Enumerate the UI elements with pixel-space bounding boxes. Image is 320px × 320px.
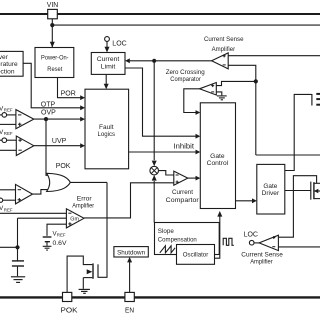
svg-text:Driver: Driver <box>262 190 280 197</box>
wire POK comparator top input <box>0 189 16 191</box>
wire OVP reference input <box>7 114 16 116</box>
wire SS pin line <box>0 246 18 248</box>
pin VIN <box>47 2 59 19</box>
svg-text:EN: EN <box>125 306 134 315</box>
svg-text:Gm: Gm <box>70 217 79 223</box>
arrow UVP into Fault Logics <box>80 143 85 148</box>
wire zero crossing plus input <box>216 81 256 85</box>
svg-text:Error: Error <box>77 195 93 202</box>
svg-text:Logics: Logics <box>98 131 116 138</box>
wire LOC output <box>254 242 259 244</box>
arrow PWM into Gate Control <box>196 176 201 181</box>
svg-text:VIN: VIN <box>47 2 59 9</box>
block U_CL Current Limit <box>91 53 125 75</box>
op-amp U_CS2 current sense amplifier bottom <box>259 235 278 250</box>
node LOC bottom terminal <box>249 240 254 245</box>
arrow LOC into Current Limit <box>105 47 110 53</box>
arrow EN into Shutdown <box>127 257 132 262</box>
block U_FL Fault Logics <box>85 89 129 169</box>
transistor Q_HS high side MOSFET (cut at right edge) <box>312 94 320 106</box>
comparator U_ZC zero crossing <box>200 83 217 96</box>
svg-text:Current: Current <box>172 189 193 196</box>
svg-text:Temperature: Temperature <box>0 61 18 68</box>
wire Gate Control to Gate Driver <box>236 200 253 202</box>
svg-text:OVP: OVP <box>41 109 56 116</box>
block U_SC Slope Compensation <box>155 223 220 255</box>
wire Q_POK source to ground <box>82 278 84 289</box>
arrow into Gate Driver <box>252 198 257 203</box>
ground below Q_POK <box>79 289 90 293</box>
wire low side drain sense <box>278 176 316 238</box>
wire POK pin to MOSFET drain <box>67 256 92 292</box>
waveform sawtooth slope icon <box>160 246 175 253</box>
wire VIN branch rail <box>52 24 320 26</box>
svg-text:Amplifier: Amplifier <box>212 46 236 53</box>
label Current Sense Amplifier top <box>204 36 244 53</box>
wire current sense bottom minus input <box>278 246 320 248</box>
arrow current sense into Current Limit <box>125 58 130 63</box>
node SS junction <box>15 245 19 249</box>
svg-text:Amplifier: Amplifier <box>250 258 273 265</box>
wire current comparator output <box>188 177 196 179</box>
wire OTP box to OTP line <box>23 63 81 108</box>
arrow clock into Gate Control <box>217 211 222 217</box>
svg-text:Compensation: Compensation <box>158 236 197 243</box>
label Current Sense Amplifier bottom <box>241 251 283 265</box>
gate OR POK <box>47 173 71 191</box>
wire SS riser <box>17 218 19 247</box>
svg-text:REF: REF <box>4 131 13 136</box>
node LOC top terminal <box>105 37 110 42</box>
wire VREF input to error amplifier <box>47 224 67 236</box>
op-amp U_CS1 current sense amplifier top <box>212 53 229 69</box>
wire VIN pin to POR <box>51 19 53 47</box>
wire bottom GND rail <box>0 296 320 298</box>
svg-text:REF: REF <box>57 233 66 238</box>
svg-text:Inhibit: Inhibit <box>174 144 195 151</box>
ground below C_SS <box>11 277 25 283</box>
wire current sense minus input <box>228 65 256 81</box>
label Zero Crossing Comparator <box>166 69 205 83</box>
block U_OTP Over Temperature Protection (cut at left edge) <box>0 51 23 76</box>
arrow zero crossing into Gate Control <box>196 110 201 115</box>
wire current sense to Current Limit <box>130 60 212 62</box>
wire slope compensation to summing node <box>153 181 155 223</box>
wire VIN top rail <box>0 13 320 15</box>
wire POK gate riser <box>98 182 107 277</box>
svg-text:Limit: Limit <box>101 63 116 70</box>
ground at zero crossing comparator <box>217 96 227 100</box>
svg-text:Current Sense: Current Sense <box>204 36 244 43</box>
svg-text:POR: POR <box>61 91 76 98</box>
wire UVP output <box>34 145 81 147</box>
block U_OSC Oscillator <box>177 245 215 265</box>
svg-text:Shutdown: Shutdown <box>117 250 145 257</box>
svg-text:Protection: Protection <box>0 68 15 75</box>
svg-text:Fault: Fault <box>99 124 114 131</box>
svg-text:Slope: Slope <box>158 228 174 235</box>
block U_POR Power-On-Reset <box>35 48 74 78</box>
wire SS input to error amplifier <box>18 217 67 219</box>
svg-text:POK: POK <box>56 163 71 170</box>
arrow VIN into Power-On-Reset <box>50 42 55 48</box>
arrow Inhibit into Gate Control <box>196 150 201 155</box>
svg-text:0.6V: 0.6V <box>53 240 67 247</box>
wire high side gate drive <box>285 94 312 170</box>
pin EN <box>125 292 134 314</box>
capacitor C_SS <box>12 247 24 276</box>
comparator POK <box>16 184 33 204</box>
arrow OTP into Fault Logics <box>80 105 85 110</box>
svg-text:LOC: LOC <box>112 40 126 47</box>
node UVP reference terminal <box>0 138 7 143</box>
svg-text:Oscillator: Oscillator <box>183 252 209 259</box>
op-amp U_EA error amplifier Gm <box>66 209 84 228</box>
svg-text:Gate: Gate <box>210 153 225 160</box>
label Error Amplifier <box>72 195 95 209</box>
label xVREF for UVP comparator <box>0 129 13 136</box>
svg-text:OTP: OTP <box>41 101 56 108</box>
wire summing node to current comparator <box>159 171 174 175</box>
label VREF <box>53 230 66 237</box>
block U_GC Gate Control <box>200 103 235 209</box>
wire oscillator clock to Gate Control <box>215 216 220 259</box>
svg-text:UVP: UVP <box>52 138 67 145</box>
svg-text:Reset: Reset <box>47 66 62 73</box>
wire POK comparator output to OR gate <box>33 190 50 195</box>
node current sense junction <box>152 59 156 63</box>
arrow OVP into Fault Logics <box>80 117 85 122</box>
svg-text:Power-On-: Power-On- <box>41 55 69 62</box>
wire Current Limit to Gate Control <box>125 68 196 136</box>
svg-text:Gate: Gate <box>263 183 277 190</box>
svg-text:Compartor: Compartor <box>166 197 200 204</box>
svg-text:Comparator: Comparator <box>170 76 201 83</box>
wire OVP to POK OR gate <box>46 119 50 175</box>
node summing junction <box>150 166 159 175</box>
wire POK OR output <box>70 181 107 183</box>
node OVP junction <box>44 117 48 121</box>
wire OVP output <box>34 118 81 120</box>
svg-text:Current: Current <box>97 56 120 63</box>
svg-text:Amplifier: Amplifier <box>72 203 95 210</box>
wire EN pin to Shutdown <box>129 261 131 293</box>
wire current sense plus input rail <box>228 55 320 57</box>
block U_GD Gate Driver <box>257 164 285 214</box>
wire switch node riser <box>255 81 257 155</box>
comparator OVP <box>16 110 34 129</box>
wire UVP reference input <box>7 139 17 141</box>
transistor Q_LS low side MOSFET (cut at right edge) <box>311 182 320 200</box>
wire zero crossing output to Gate Control <box>184 89 200 113</box>
label xVREF for POK comparator <box>0 205 13 212</box>
node switch sense junction <box>254 79 258 83</box>
arrow current limit signal into Gate Control <box>196 134 201 139</box>
svg-text:Control: Control <box>207 160 229 167</box>
wire switch node rail <box>256 154 320 156</box>
svg-text:LOC: LOC <box>244 232 258 239</box>
wire POK reference input <box>3 199 16 201</box>
comparator UVP <box>16 136 34 156</box>
battery VREF 0.6V <box>43 237 52 250</box>
pin POK <box>61 292 78 314</box>
wire UVP feedback input <box>0 149 16 151</box>
waveform clock pulses icon <box>223 238 234 245</box>
wire zero crossing minus to ground <box>216 92 222 96</box>
block U_SD Shutdown <box>114 247 148 257</box>
wire low side gate drive <box>285 190 311 192</box>
wire Inhibit Fault Logics to Gate Control <box>129 151 196 153</box>
svg-text:REF: REF <box>4 208 13 213</box>
wire FB input to error amplifier <box>0 212 67 214</box>
transistor Q_POK open-drain MOSFET <box>83 263 98 278</box>
arrow POR into Fault Logics <box>80 95 85 100</box>
node POK reference terminal <box>0 198 3 202</box>
svg-text:REF: REF <box>4 108 13 113</box>
svg-text:Zero Crossing: Zero Crossing <box>166 69 205 76</box>
wire current sense to summing node <box>153 61 155 160</box>
label Current Compartor <box>166 189 200 204</box>
arrow into summing node top <box>152 161 157 167</box>
node OVP reference terminal <box>0 113 7 118</box>
wire LOC to Current Limit <box>106 41 108 48</box>
comparator U_CC current comparator <box>174 171 188 185</box>
node VIN junction <box>50 23 54 27</box>
arrow Current Limit into Fault Logics top <box>104 84 109 90</box>
wire POR output <box>58 78 81 98</box>
wire OVP feedback input <box>0 123 16 125</box>
label xVREF for OVP comparator <box>0 105 13 112</box>
arrow into summing node bottom <box>152 175 157 181</box>
wire error amplifier output to current comparator <box>84 183 174 218</box>
svg-text:POK: POK <box>61 306 78 315</box>
wire Current Limit output to Fault Logics <box>105 74 107 85</box>
